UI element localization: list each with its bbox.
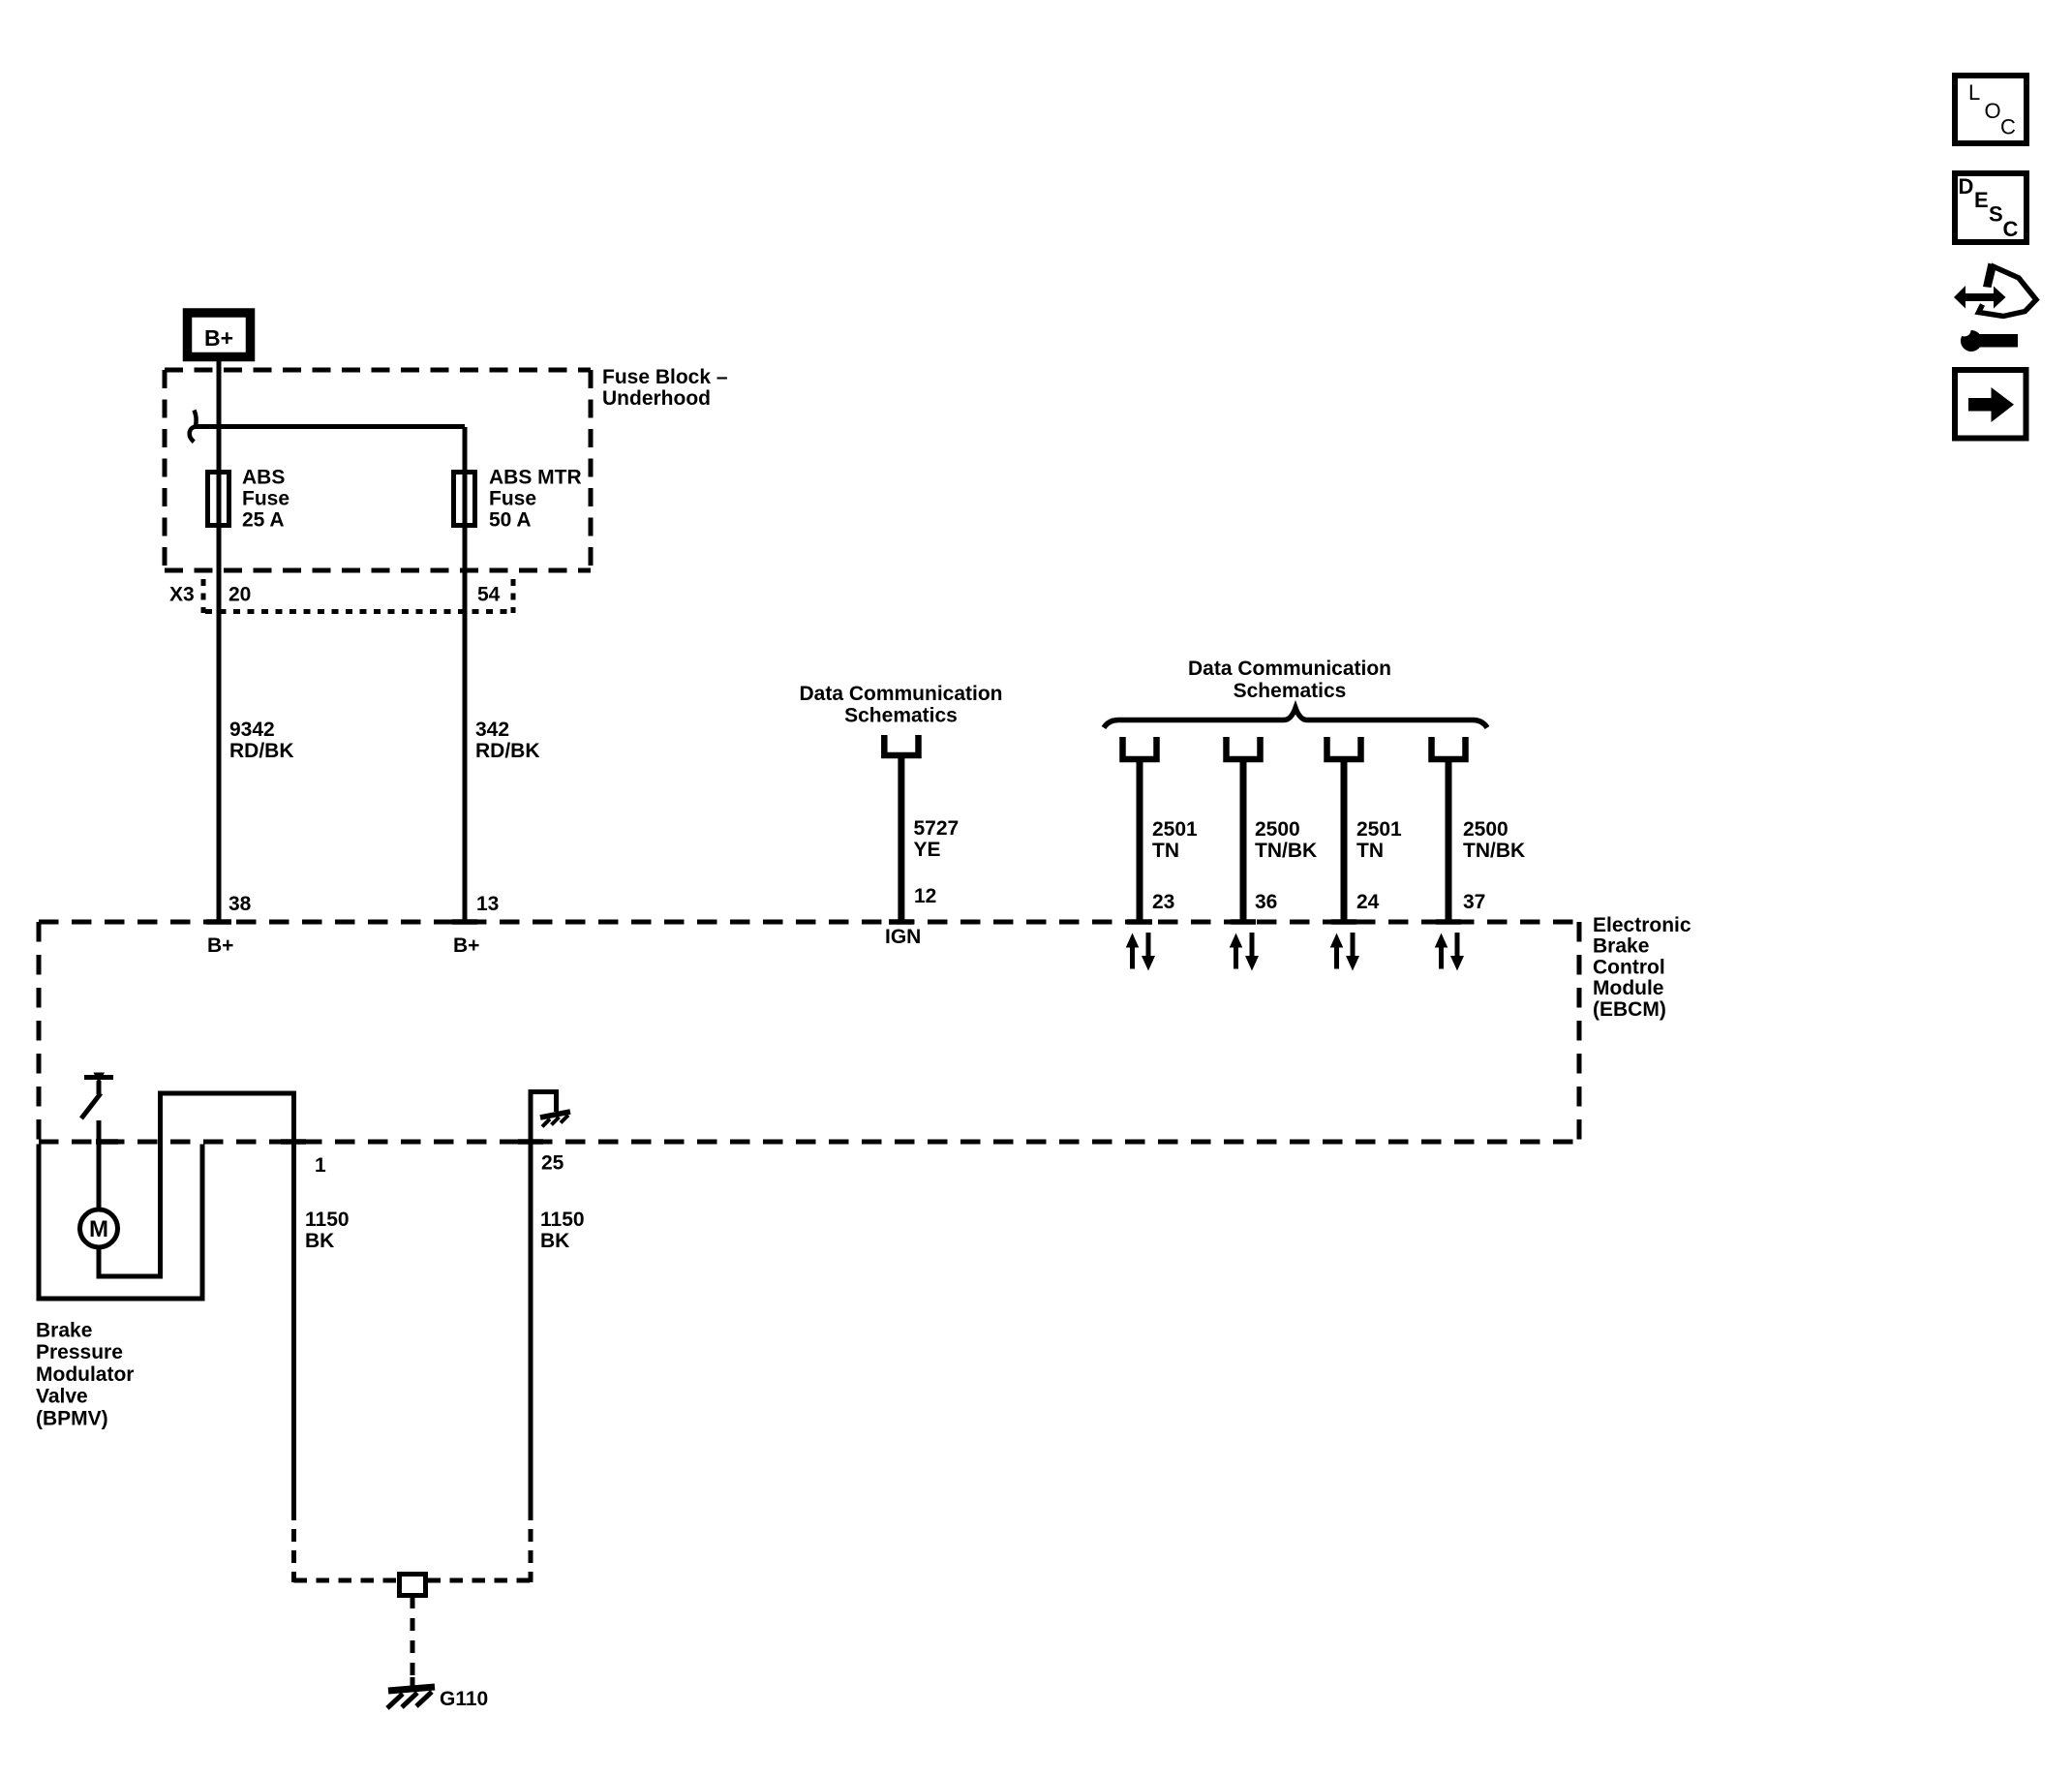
svg-text:23: 23 bbox=[1152, 891, 1174, 913]
svg-text:Fuse: Fuse bbox=[489, 488, 536, 510]
svg-text:20: 20 bbox=[229, 584, 251, 606]
svg-text:Fuse: Fuse bbox=[242, 488, 289, 510]
svg-text:RD/BK: RD/BK bbox=[475, 740, 540, 762]
svg-text:L: L bbox=[1968, 80, 1980, 105]
svg-text:Electronic: Electronic bbox=[1593, 914, 1691, 936]
svg-text:12: 12 bbox=[914, 885, 936, 907]
svg-text:Schematics: Schematics bbox=[1234, 680, 1347, 702]
svg-text:G110: G110 bbox=[440, 1688, 488, 1710]
svg-text:B+: B+ bbox=[207, 934, 233, 957]
svg-text:C: C bbox=[2000, 115, 2016, 139]
svg-text:Valve: Valve bbox=[36, 1386, 88, 1408]
svg-text:TN/BK: TN/BK bbox=[1463, 840, 1525, 862]
svg-text:Data Communication: Data Communication bbox=[1188, 658, 1391, 680]
svg-text:2501: 2501 bbox=[1152, 818, 1198, 841]
svg-text:X3: X3 bbox=[169, 584, 195, 606]
svg-text:E: E bbox=[1974, 188, 1989, 212]
svg-text:M: M bbox=[89, 1216, 108, 1242]
svg-text:Underhood: Underhood bbox=[602, 387, 711, 410]
svg-text:Pressure: Pressure bbox=[36, 1341, 123, 1363]
svg-text:RD/BK: RD/BK bbox=[229, 740, 294, 762]
svg-text:BK: BK bbox=[540, 1230, 569, 1252]
svg-text:ABS MTR: ABS MTR bbox=[489, 467, 582, 489]
svg-text:Modulator: Modulator bbox=[36, 1363, 134, 1386]
svg-text:Brake: Brake bbox=[36, 1320, 92, 1342]
svg-text:5727: 5727 bbox=[914, 817, 960, 840]
svg-text:54: 54 bbox=[477, 584, 501, 606]
svg-text:(EBCM): (EBCM) bbox=[1593, 998, 1666, 1021]
svg-text:13: 13 bbox=[476, 893, 499, 915]
svg-text:25: 25 bbox=[541, 1152, 564, 1175]
svg-text:D: D bbox=[1959, 174, 1974, 199]
svg-text:37: 37 bbox=[1463, 891, 1485, 913]
svg-text:S: S bbox=[1989, 202, 2003, 227]
svg-text:(BPMV): (BPMV) bbox=[36, 1407, 108, 1429]
svg-text:O: O bbox=[1985, 99, 2001, 123]
svg-text:TN: TN bbox=[1356, 840, 1384, 862]
svg-text:YE: YE bbox=[914, 839, 941, 861]
svg-text:Data Communication: Data Communication bbox=[799, 683, 1002, 705]
svg-text:24: 24 bbox=[1356, 891, 1380, 913]
svg-text:C: C bbox=[2003, 217, 2019, 241]
svg-text:Control: Control bbox=[1593, 956, 1665, 978]
svg-text:1: 1 bbox=[315, 1154, 326, 1177]
svg-text:25 A: 25 A bbox=[242, 509, 285, 532]
svg-text:B+: B+ bbox=[453, 934, 479, 957]
svg-text:2500: 2500 bbox=[1463, 818, 1508, 841]
svg-text:9342: 9342 bbox=[229, 719, 275, 741]
svg-text:342: 342 bbox=[475, 719, 509, 741]
svg-text:TN: TN bbox=[1152, 840, 1179, 862]
svg-text:1150: 1150 bbox=[540, 1209, 585, 1231]
svg-text:Schematics: Schematics bbox=[844, 705, 958, 727]
svg-text:Fuse Block –: Fuse Block – bbox=[602, 366, 728, 388]
svg-text:2501: 2501 bbox=[1356, 818, 1402, 841]
svg-text:ABS: ABS bbox=[242, 467, 285, 489]
svg-text:1150: 1150 bbox=[305, 1209, 350, 1231]
svg-text:38: 38 bbox=[229, 893, 252, 915]
svg-text:Module: Module bbox=[1593, 977, 1664, 999]
svg-text:TN/BK: TN/BK bbox=[1255, 840, 1317, 862]
svg-text:BK: BK bbox=[305, 1230, 334, 1252]
svg-text:36: 36 bbox=[1255, 891, 1277, 913]
svg-text:Brake: Brake bbox=[1593, 935, 1649, 958]
svg-text:50 A: 50 A bbox=[489, 509, 532, 532]
svg-text:IGN: IGN bbox=[885, 926, 921, 948]
svg-text:2500: 2500 bbox=[1255, 818, 1300, 841]
svg-text:B+: B+ bbox=[204, 325, 233, 351]
